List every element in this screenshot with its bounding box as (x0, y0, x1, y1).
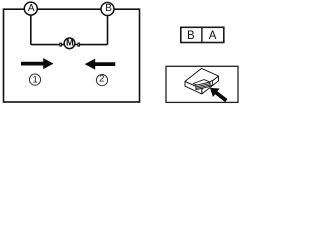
svg-text:2: 2 (99, 73, 104, 84)
svg-text:A: A (209, 30, 217, 42)
svg-text:B: B (187, 30, 195, 42)
svg-text:1: 1 (33, 74, 38, 84)
svg-text:M: M (66, 38, 74, 48)
svg-text:B: B (105, 3, 112, 14)
svg-text:A: A (28, 3, 35, 14)
